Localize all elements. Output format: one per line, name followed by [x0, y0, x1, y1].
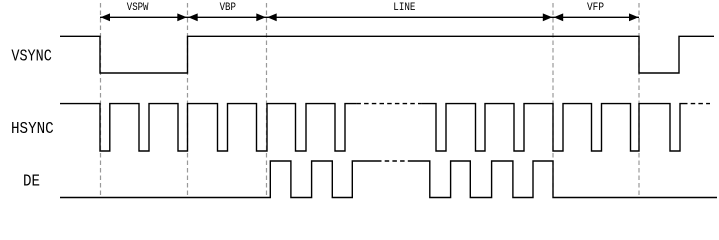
svg-text:VSYNC: VSYNC	[11, 48, 51, 66]
svg-text:HSYNC: HSYNC	[11, 121, 54, 139]
arrowhead pair at LINE/VFP boundary	[543, 13, 553, 21]
dashed gridline at x=187.5 (VSPW/VBP boundary)	[187, 3, 189, 197]
HSYNC waveform left solid part	[60, 104, 356, 151]
arrowhead left of VSPW	[101, 13, 111, 21]
dashed gridline at x=553 (LINE/VFP boundary)	[552, 3, 554, 197]
dashed gridline at x=639 (end of VFP)	[638, 3, 640, 197]
dimension line spanning all intervals	[100, 16, 639, 18]
DE waveform left solid part	[60, 161, 377, 198]
svg-text:VSPW: VSPW	[127, 1, 149, 14]
DE waveform right solid part	[412, 161, 717, 198]
arrowhead right of VFP	[629, 13, 639, 21]
DE ellipsis dashes	[377, 160, 412, 162]
VSYNC waveform	[60, 36, 714, 73]
dashed gridline at x=266.5 (VBP/LINE boundary)	[266, 3, 268, 197]
HSYNC ellipsis dashes	[356, 103, 422, 105]
svg-text:DE: DE	[23, 173, 40, 191]
arrowhead pair at VSPW/VBP boundary	[177, 13, 187, 21]
svg-text:LINE: LINE	[393, 1, 415, 14]
svg-text:VFP: VFP	[587, 1, 604, 14]
svg-text:VBP: VBP	[220, 1, 237, 14]
arrowhead pair at VBP/LINE boundary	[256, 13, 266, 21]
HSYNC trailing dashes	[683, 103, 710, 105]
HSYNC waveform right solid part	[422, 104, 683, 151]
dashed gridline at x=100 (start of VSPW)	[100, 3, 102, 197]
